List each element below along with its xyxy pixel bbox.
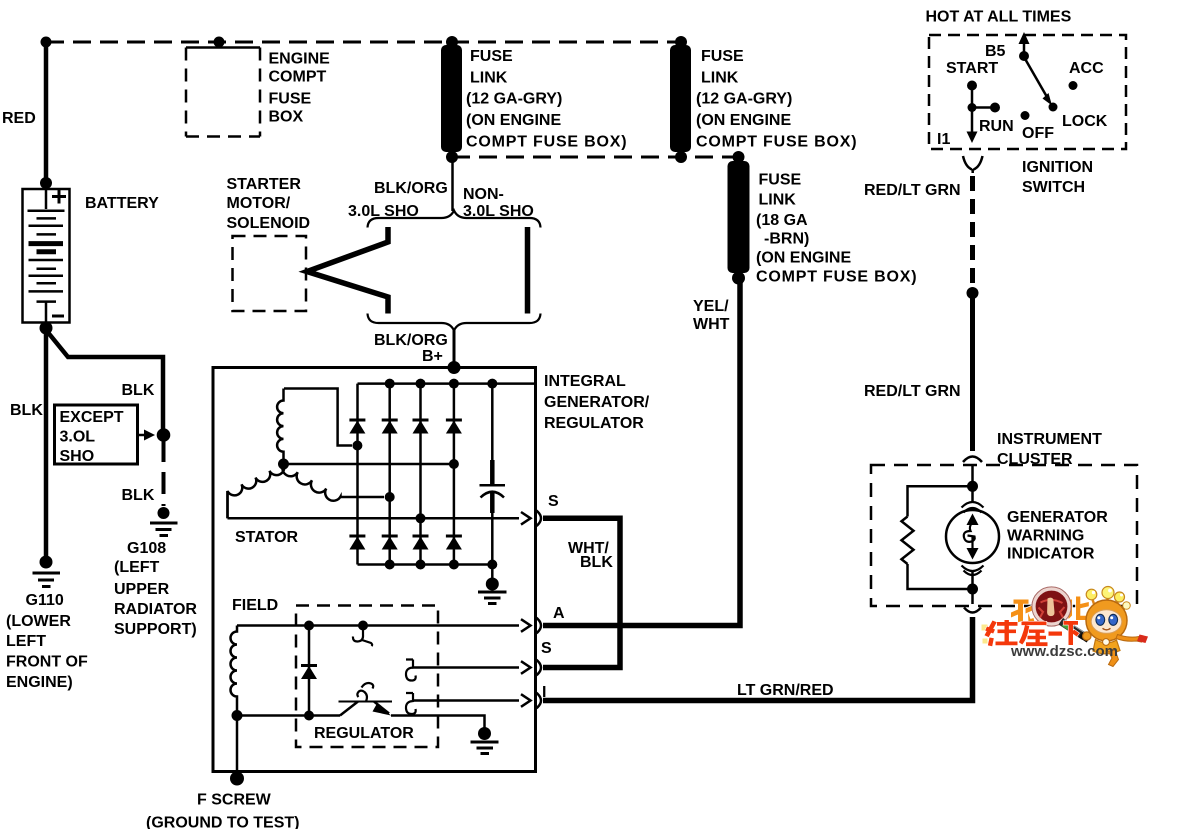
diode D2 upper xyxy=(382,420,398,434)
wire resistor branch bottom xyxy=(908,564,973,589)
diode D4 upper xyxy=(446,420,462,434)
brace bottom xyxy=(368,314,541,331)
hook A line xyxy=(353,630,372,646)
svg-text:LEFT: LEFT xyxy=(6,633,46,650)
svg-text:BOX: BOX xyxy=(269,109,304,126)
svg-text:NON-: NON- xyxy=(463,186,504,203)
svg-text:ENGINE: ENGINE xyxy=(269,51,331,68)
node fuse box tap xyxy=(214,37,225,48)
svg-text:UPPER: UPPER xyxy=(114,581,170,598)
wire RED/LT GRN dashed xyxy=(970,176,975,288)
connector lamp bottom xyxy=(962,566,984,576)
svg-text:(LOWER: (LOWER xyxy=(6,613,71,630)
svg-text:3.OL: 3.OL xyxy=(60,429,96,446)
svg-text:-BRN): -BRN) xyxy=(764,231,809,248)
svg-text:(18 GA: (18 GA xyxy=(756,212,808,229)
svg-text:MOTOR/: MOTOR/ xyxy=(227,195,291,212)
node F screw xyxy=(230,772,244,786)
svg-text:STARTER: STARTER xyxy=(227,176,302,193)
brace top xyxy=(368,211,541,228)
svg-text:BATTERY: BATTERY xyxy=(85,195,159,212)
wire rail2 dashed xyxy=(452,156,738,159)
fuse link F2 xyxy=(670,36,691,163)
wire stator to col4 xyxy=(284,463,454,466)
svg-text:FIELD: FIELD xyxy=(232,597,278,614)
svg-text:(ON ENGINE: (ON ENGINE xyxy=(756,250,851,267)
svg-text:YEL/: YEL/ xyxy=(693,298,729,315)
svg-text:COMPT FUSE BOX): COMPT FUSE BOX) xyxy=(466,134,627,151)
svg-text:BLK: BLK xyxy=(10,402,43,419)
wire battery to except-junction xyxy=(46,330,163,430)
terminal chevron A xyxy=(534,617,541,634)
diode D3 upper xyxy=(413,420,429,434)
svg-text:COMPT FUSE BOX): COMPT FUSE BOX) xyxy=(756,269,917,286)
terminal chevron I xyxy=(534,692,541,709)
svg-text:INTEGRAL: INTEGRAL xyxy=(544,373,626,390)
svg-text:FUSE: FUSE xyxy=(269,91,312,108)
svg-text:S: S xyxy=(541,640,552,657)
svg-text:SOLENOID: SOLENOID xyxy=(227,215,311,232)
ground regulator xyxy=(471,727,499,754)
svg-text:(12 GA-GRY): (12 GA-GRY) xyxy=(696,91,792,108)
wire A to fuse link YEL/WHT xyxy=(543,281,740,626)
ignition switch box xyxy=(929,35,1126,149)
node ACC xyxy=(1069,81,1078,90)
svg-text:F SCREW: F SCREW xyxy=(197,792,272,809)
node field bottom xyxy=(232,710,243,721)
wire rectifier top bus xyxy=(358,382,536,385)
svg-text:EXCEPT: EXCEPT xyxy=(60,409,124,426)
hook S line xyxy=(406,660,416,681)
wire I line xyxy=(412,699,519,702)
transistor Q1 xyxy=(339,683,393,716)
watermark logo xyxy=(982,587,1149,667)
zener diode Z1 xyxy=(301,666,317,680)
watermark chinese red text xyxy=(985,620,1080,646)
svg-text:LT GRN/RED: LT GRN/RED xyxy=(737,682,834,699)
svg-text:SUPPORT): SUPPORT) xyxy=(114,621,197,638)
wire RED/LT GRN solid xyxy=(970,293,975,451)
resistor R1 xyxy=(902,517,914,565)
svg-text:WARNING: WARNING xyxy=(1007,528,1084,545)
svg-text:G108: G108 xyxy=(127,540,166,557)
svg-text:BLK: BLK xyxy=(580,554,613,571)
svg-text:RED/LT GRN: RED/LT GRN xyxy=(864,383,961,400)
svg-text:START: START xyxy=(946,60,998,77)
svg-text:COMPT FUSE BOX): COMPT FUSE BOX) xyxy=(696,134,857,151)
field coil xyxy=(231,626,237,716)
svg-text:IGNITION: IGNITION xyxy=(1022,159,1093,176)
regulator dashed box xyxy=(296,606,438,748)
svg-text:INSTRUMENT: INSTRUMENT xyxy=(997,431,1102,448)
svg-text:B+: B+ xyxy=(422,348,443,365)
svg-text:SHO: SHO xyxy=(60,448,95,465)
node OFF xyxy=(1021,111,1030,120)
connector cluster top xyxy=(963,457,982,463)
wire stator output to S with crossing xyxy=(228,491,520,518)
svg-text:FRONT OF: FRONT OF xyxy=(6,654,88,671)
diode D7 lower xyxy=(413,536,429,550)
stator coil 1 xyxy=(277,389,283,464)
node RUN branch xyxy=(968,103,977,112)
fuse link F3 xyxy=(728,151,750,285)
svg-text:RADIATOR: RADIATOR xyxy=(114,601,197,618)
wire dashed to G108 xyxy=(162,440,166,506)
wire A line xyxy=(237,624,519,627)
ground rectifier xyxy=(478,565,507,604)
svg-text:A: A xyxy=(553,605,565,622)
wire resistor branch top xyxy=(908,486,973,516)
wire cluster entry xyxy=(971,466,974,486)
wire lamp bottom xyxy=(971,572,974,589)
svg-text:I1: I1 xyxy=(937,131,950,148)
svg-text:G110: G110 xyxy=(26,592,64,609)
svg-text:B5: B5 xyxy=(985,43,1006,60)
ground G110 xyxy=(33,556,61,587)
wire START to I1 arrow xyxy=(971,86,974,135)
arrow A line xyxy=(521,619,531,632)
svg-text:GENERATOR/: GENERATOR/ xyxy=(544,394,650,411)
wire lamp top xyxy=(971,486,974,502)
node stator center xyxy=(278,459,289,470)
arrow S line xyxy=(521,512,531,525)
node RED/LT GRN xyxy=(967,287,979,299)
wire F1 to brace xyxy=(451,160,454,211)
node LOCK xyxy=(1049,103,1058,112)
svg-text:BLK/ORG: BLK/ORG xyxy=(374,332,448,349)
stator coil 2 xyxy=(228,464,285,518)
node bus dots top xyxy=(385,379,395,389)
hook I line xyxy=(406,693,416,714)
svg-text:INDICATOR: INDICATOR xyxy=(1007,546,1095,563)
svg-text:www.dzsc.com: www.dzsc.com xyxy=(1010,643,1118,660)
arrow B5 up xyxy=(1023,42,1026,56)
svg-text:LINK: LINK xyxy=(701,70,739,87)
connector lamp top xyxy=(962,502,984,513)
svg-text:(ON ENGINE: (ON ENGINE xyxy=(696,112,791,129)
node RUN xyxy=(990,103,1000,113)
wire diode column 2 xyxy=(388,384,391,565)
svg-text:WHT: WHT xyxy=(693,316,730,333)
wire battery positive xyxy=(44,42,49,185)
terminal chevron S lower xyxy=(534,659,541,676)
svg-text:REGULATOR: REGULATOR xyxy=(314,725,414,742)
connector cluster bottom xyxy=(964,608,981,613)
EXCEPT 3.0L SHO box xyxy=(55,405,138,464)
svg-text:LOCK: LOCK xyxy=(1062,113,1108,130)
stator coil 3 xyxy=(282,464,384,501)
svg-text:FUSE: FUSE xyxy=(701,48,744,65)
integral generator/regulator box xyxy=(213,368,536,772)
node cluster bottom xyxy=(967,584,978,595)
svg-text:BLK: BLK xyxy=(122,487,155,504)
switch wiper to LOCK xyxy=(1024,57,1047,97)
fuse link F1 xyxy=(441,36,462,163)
svg-text:(GROUND TO TEST): (GROUND TO TEST) xyxy=(146,815,299,829)
svg-text:OFF: OFF xyxy=(1022,125,1054,142)
wire 3.0L SHO branch with arrow xyxy=(307,227,388,314)
wire diode column 3 xyxy=(419,384,422,565)
diode D8 lower xyxy=(446,536,462,550)
battery xyxy=(23,177,70,335)
terminal chevron S top xyxy=(534,510,541,527)
instrument cluster box xyxy=(871,465,1137,606)
wire cluster exit xyxy=(971,589,974,604)
svg-text:FUSE: FUSE xyxy=(759,172,802,189)
node cluster top xyxy=(967,481,978,492)
svg-text:(LEFT: (LEFT xyxy=(114,559,160,576)
svg-text:S: S xyxy=(548,493,559,510)
arrow S return xyxy=(521,661,531,674)
svg-text:BLK/ORG: BLK/ORG xyxy=(374,180,448,197)
wire top rail dashed xyxy=(46,41,681,44)
node B5 xyxy=(1019,51,1029,61)
svg-text:FUSE: FUSE xyxy=(470,48,513,65)
zener diode wire xyxy=(308,626,311,716)
wire B+ xyxy=(453,329,456,367)
node except junction xyxy=(157,428,171,442)
svg-text:COMPT: COMPT xyxy=(269,69,327,86)
svg-text:HOT AT ALL TIMES: HOT AT ALL TIMES xyxy=(926,9,1072,26)
svg-text:(12 GA-GRY): (12 GA-GRY) xyxy=(466,91,562,108)
svg-text:RED: RED xyxy=(2,110,36,127)
node START xyxy=(967,81,977,91)
svg-text:LINK: LINK xyxy=(759,192,797,209)
diode D6 lower xyxy=(382,536,398,550)
wire diode column 4 xyxy=(453,384,456,565)
svg-text:ENGINE): ENGINE) xyxy=(6,674,73,691)
svg-text:RUN: RUN xyxy=(979,118,1014,135)
engine compt fuse box xyxy=(186,48,260,137)
ground G108 xyxy=(150,507,178,536)
wire diode column 1 xyxy=(356,384,359,565)
starter motor/solenoid box xyxy=(233,236,307,311)
node A line dots xyxy=(304,621,314,631)
wire non-SHO branch xyxy=(525,227,531,314)
svg-text:RED/LT GRN: RED/LT GRN xyxy=(864,182,961,199)
svg-text:SWITCH: SWITCH xyxy=(1022,179,1085,196)
wire F screw xyxy=(236,716,239,774)
wire S link thick xyxy=(543,518,620,667)
svg-text:BLK: BLK xyxy=(122,382,155,399)
diode D1 upper xyxy=(349,420,365,434)
wire RUN branch xyxy=(972,106,992,109)
svg-text:STATOR: STATOR xyxy=(235,529,299,546)
diode D5 lower xyxy=(349,536,365,550)
stator phase 1 wire xyxy=(284,389,352,446)
capacitor C1 xyxy=(480,384,506,565)
svg-text:ACC: ACC xyxy=(1069,60,1104,77)
node battery feed xyxy=(41,37,52,48)
wire fuse box stub xyxy=(218,42,221,48)
svg-text:GENERATOR: GENERATOR xyxy=(1007,509,1108,526)
svg-text:(ON ENGINE: (ON ENGINE xyxy=(466,112,561,129)
arrow except to junction xyxy=(138,434,146,437)
svg-text:REGULATOR: REGULATOR xyxy=(544,415,644,432)
wire I to cluster LT GRN/RED xyxy=(543,617,973,701)
wire regulator bottom xyxy=(237,716,485,729)
connector Y below ignition xyxy=(963,156,983,173)
svg-text:LINK: LINK xyxy=(470,70,508,87)
wire battery negative to G110 xyxy=(44,328,49,556)
generator warning indicator lamp xyxy=(946,510,999,563)
wire S return line xyxy=(412,666,519,669)
arrow I line xyxy=(521,694,531,707)
node bus dots bottom xyxy=(385,560,395,570)
wire rectifier bottom bus xyxy=(358,563,493,566)
